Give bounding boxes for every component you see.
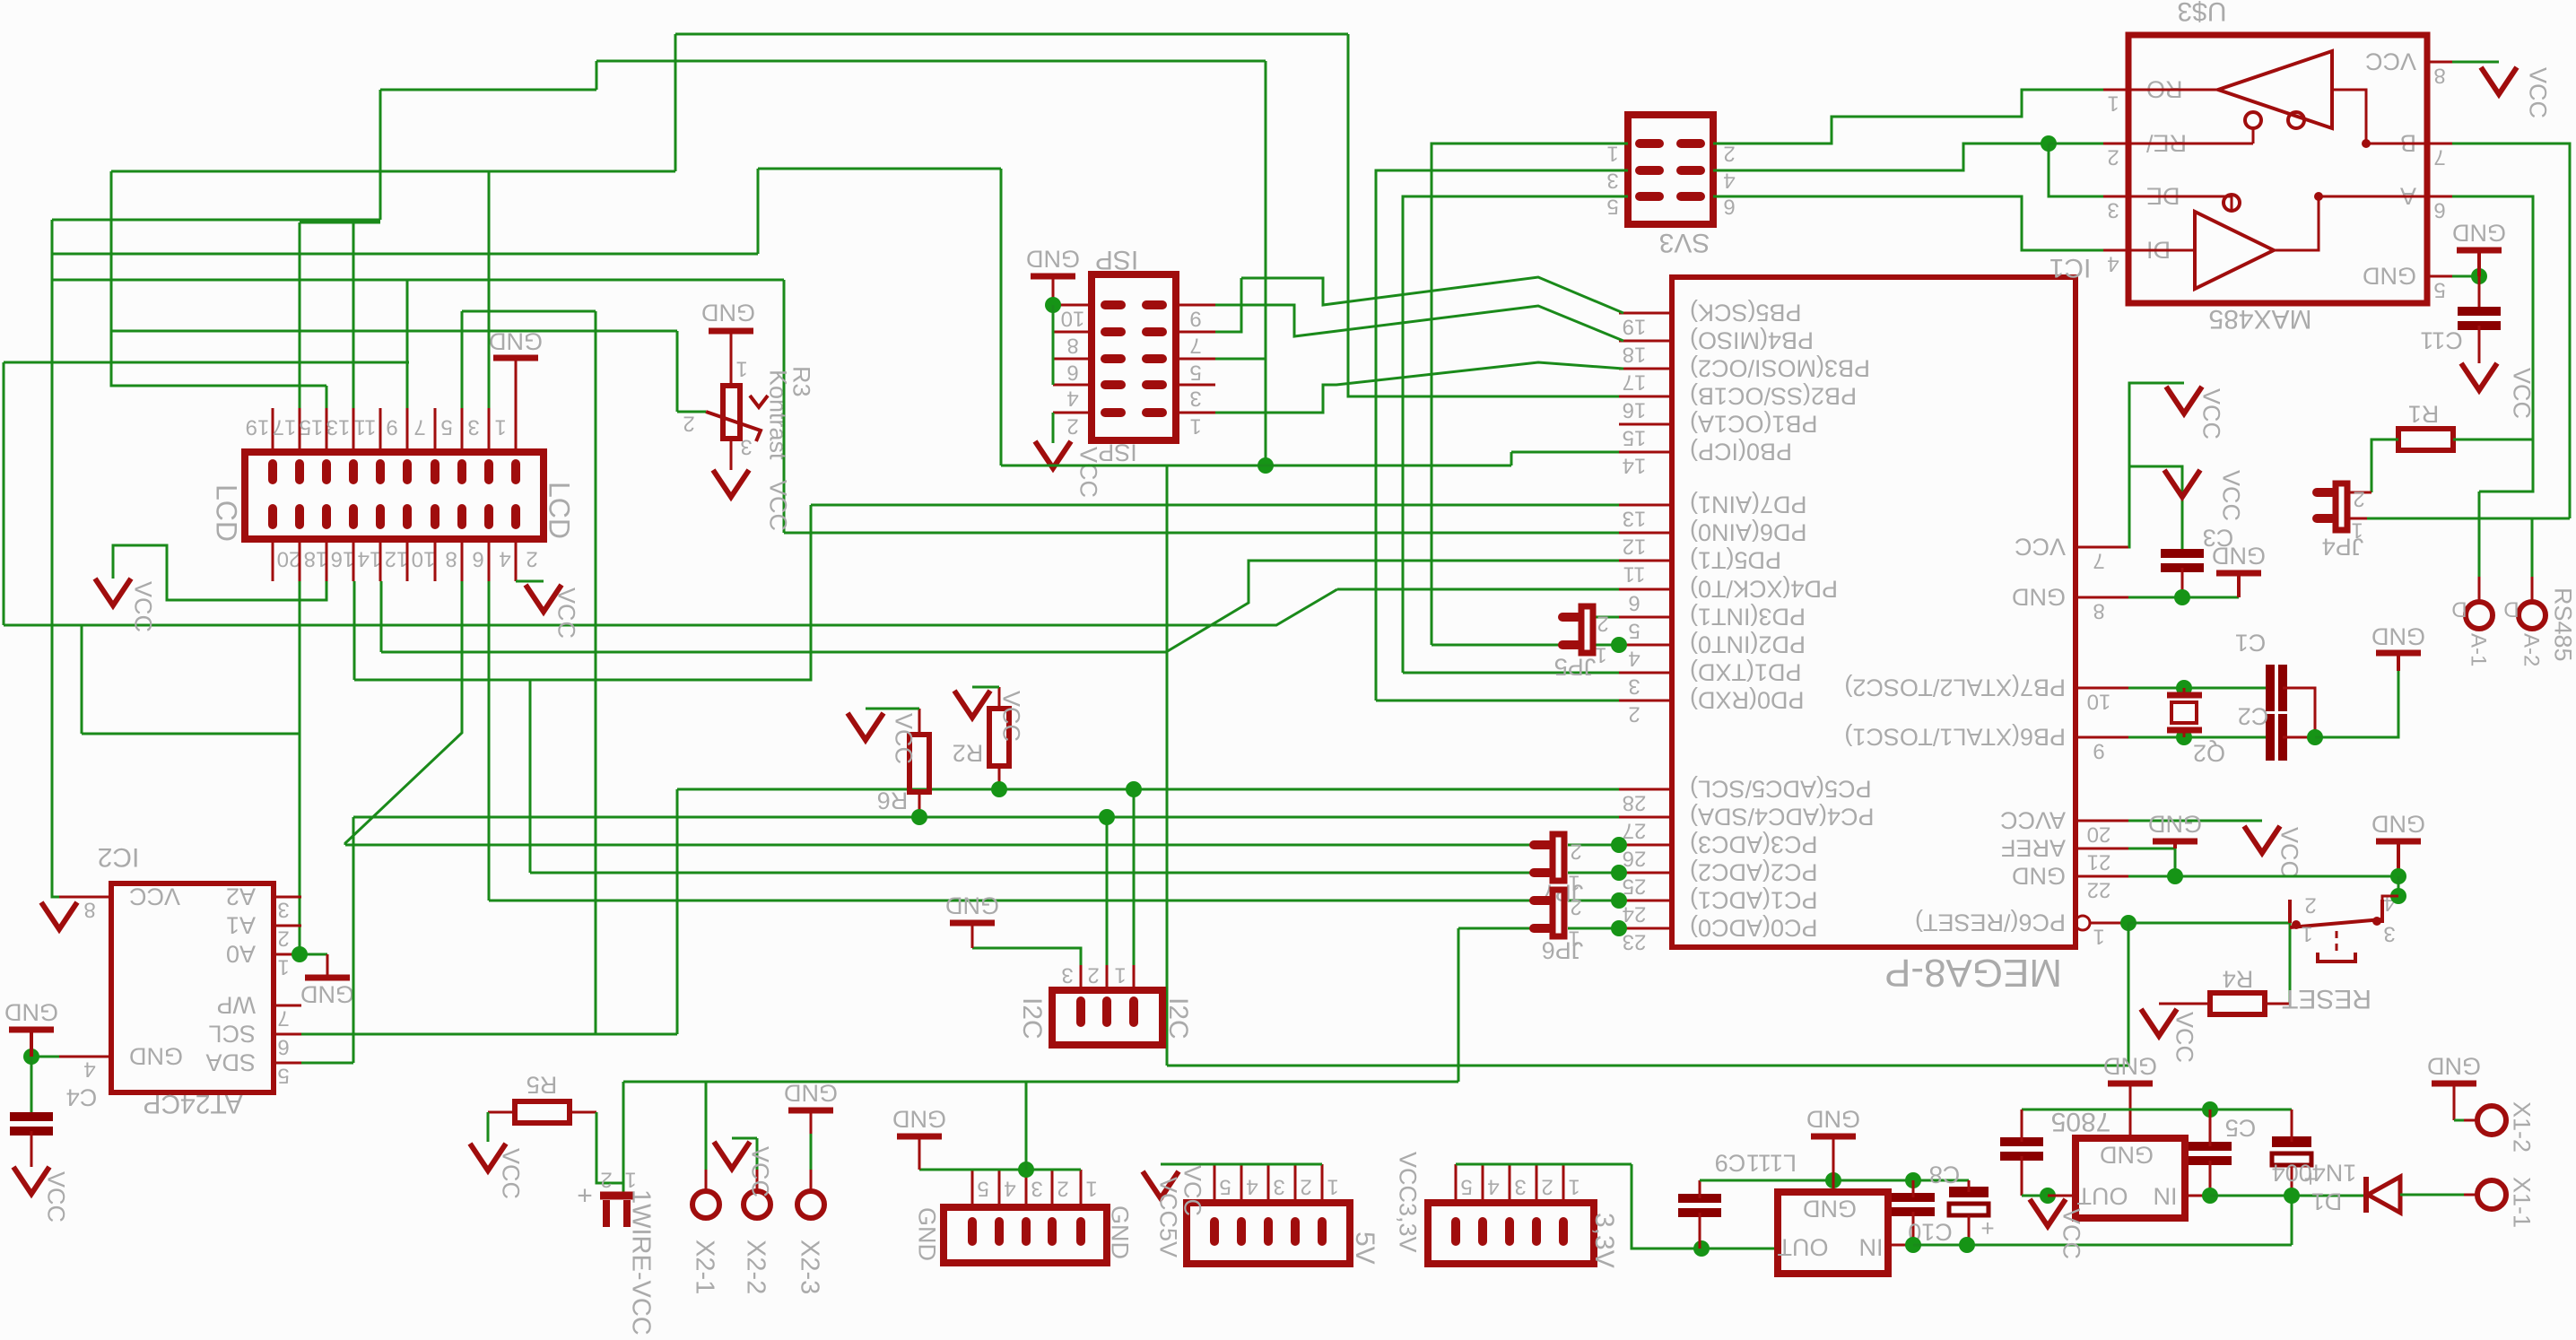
svg-text:D: D xyxy=(2503,596,2519,621)
wire h818 xyxy=(82,733,300,735)
wire C7 top xyxy=(2021,1109,2023,1142)
connector X1-2 xyxy=(2477,1106,2506,1135)
wire SV3 pin4 to RE xyxy=(1713,144,2049,170)
svg-text:GND: GND xyxy=(701,299,755,326)
wire to C3 xyxy=(2129,466,2182,553)
svg-text:VCC: VCC xyxy=(746,1146,773,1197)
svg-text:VCC: VCC xyxy=(2217,470,2244,521)
pin 24 stub xyxy=(1619,900,1672,902)
connector A-2 xyxy=(2519,602,2546,629)
pad LCD pin 11 xyxy=(376,464,385,480)
wire MOSI xyxy=(1215,362,1623,413)
pad LCD pin 4 xyxy=(484,509,493,525)
wire RE stub link xyxy=(2049,143,2103,145)
wire IN net xyxy=(2210,1195,2366,1197)
svg-text:C2: C2 xyxy=(2238,702,2269,729)
svg-text:3: 3 xyxy=(2383,921,2395,945)
wire h404 xyxy=(4,361,409,364)
pin 14 stub xyxy=(1619,451,1672,454)
receiver buffer inside MAX485 xyxy=(2218,51,2332,128)
pin 3 stub xyxy=(2103,196,2128,198)
capacitor C7 xyxy=(2000,1137,2043,1146)
VCC symbol IC2 xyxy=(41,902,77,929)
svg-text:1: 1 xyxy=(1327,1174,1338,1198)
pad VCC3,3V pin 4 xyxy=(1478,1222,1487,1241)
wire wiper lead xyxy=(677,411,706,413)
pin 5 line xyxy=(461,408,464,452)
pin 6 line xyxy=(461,539,464,581)
svg-text:20: 20 xyxy=(2087,822,2111,846)
svg-text:7: 7 xyxy=(413,414,425,439)
wire ground stub xyxy=(2453,1083,2456,1120)
svg-text:26: 26 xyxy=(1623,846,1647,870)
pin 3 line xyxy=(1025,1170,1028,1207)
pin 4 line xyxy=(998,1170,1001,1207)
svg-text:VCC: VCC xyxy=(2015,533,2066,560)
svg-text:GND: GND xyxy=(784,1079,838,1106)
svg-text:5: 5 xyxy=(277,1063,289,1087)
pin 1 stub xyxy=(1176,412,1215,414)
wire PC2 jumper link xyxy=(1568,872,1619,874)
pad VCC5V pin 3 xyxy=(1264,1222,1273,1241)
pin 8 stub xyxy=(59,896,111,899)
svg-text:ISP: ISP xyxy=(1095,245,1138,274)
jumper JP6 xyxy=(1553,890,1564,936)
svg-text:GND: GND xyxy=(2012,862,2066,889)
svg-text:GND: GND xyxy=(2427,1052,2481,1079)
pad I2C pin 1 xyxy=(1129,1001,1138,1022)
wire PC1 jumper link xyxy=(1568,900,1619,902)
svg-text:14: 14 xyxy=(1623,453,1647,477)
junction xyxy=(2176,680,2192,696)
ground near A0 xyxy=(305,975,350,981)
svg-text:PD2(INT0): PD2(INT0) xyxy=(1690,631,1806,657)
wire LCD pin15 up xyxy=(326,386,328,408)
svg-text:SCL: SCL xyxy=(208,1020,256,1047)
pad LCD pin 12 xyxy=(376,509,385,525)
svg-text:X2-3: X2-3 xyxy=(796,1240,824,1294)
pin 1 line xyxy=(1321,1164,1324,1203)
wire C10 bottom xyxy=(1912,1212,1915,1245)
svg-text:5: 5 xyxy=(977,1176,988,1200)
pin 1 line xyxy=(1133,965,1136,990)
connector X2-2 xyxy=(744,1191,770,1218)
wire to LF33 out xyxy=(1632,1164,1778,1249)
svg-text:13: 13 xyxy=(1623,506,1647,530)
wire PC0 jumper link xyxy=(1568,927,1619,930)
junction xyxy=(2176,729,2192,745)
pin 5 stub xyxy=(274,1062,301,1065)
pad SV3 pin 1 xyxy=(1640,139,1659,148)
pin 1 stub xyxy=(274,953,301,956)
svg-text:3: 3 xyxy=(1061,962,1073,987)
svg-text:OUT: OUT xyxy=(2077,1182,2128,1209)
pin 1 line xyxy=(1562,1164,1565,1203)
ground near AREF xyxy=(2153,839,2197,845)
driver buffer inside MAX485 xyxy=(2195,212,2274,289)
svg-text:13: 13 xyxy=(326,414,351,439)
wire terminal stub xyxy=(2531,577,2534,601)
svg-text:20: 20 xyxy=(277,546,301,570)
pin 1 line xyxy=(515,408,518,452)
pad JP4 pin 2 xyxy=(2317,488,2332,497)
pin 25 stub xyxy=(1619,872,1672,874)
wire LCD pin2 vcc xyxy=(516,580,544,583)
svg-text:9: 9 xyxy=(1189,306,1201,330)
svg-text:VCC: VCC xyxy=(42,1171,69,1223)
svg-text:R4: R4 xyxy=(2223,965,2254,992)
wire RE DE tie xyxy=(2049,144,2103,196)
wire LCD pin14 down xyxy=(353,581,356,680)
wire SCK net xyxy=(1241,277,1623,313)
wire ISP reset xyxy=(1215,358,1266,361)
receiver enable bubble 2 xyxy=(2288,112,2304,128)
svg-text:1N4004: 1N4004 xyxy=(2272,1159,2357,1186)
wire to PB2 SS xyxy=(1348,34,1619,396)
wire reset down xyxy=(2128,923,2130,1066)
svg-text:JP6: JP6 xyxy=(1542,936,1584,963)
pin 9 stub xyxy=(1176,304,1215,307)
pad VCC3,3V pin 3 xyxy=(1505,1222,1514,1241)
svg-text:4: 4 xyxy=(499,546,510,570)
capacitor C2 xyxy=(2270,714,2283,761)
pin 4 stub xyxy=(59,1056,111,1058)
wire I2C pin2 xyxy=(1106,817,1109,965)
pin 12 stub xyxy=(1619,532,1672,535)
pin 4 stub xyxy=(1619,644,1672,647)
pin 7 stub xyxy=(274,1005,301,1007)
pad LCD pin 9 xyxy=(403,464,412,480)
svg-text:VCC: VCC xyxy=(2058,1208,2084,1259)
svg-text:2: 2 xyxy=(1066,413,1078,438)
wire R5 to 1wire xyxy=(596,1112,623,1183)
svg-text:+: + xyxy=(1980,1215,1994,1242)
pin 5 line xyxy=(1214,1164,1216,1203)
wire crystal gnd xyxy=(2315,671,2398,737)
pin 6 stub xyxy=(274,1033,301,1036)
svg-text:8: 8 xyxy=(2433,63,2445,87)
pad JP6 pin 2 xyxy=(1534,896,1549,905)
svg-text:IN: IN xyxy=(1859,1233,1884,1260)
ground near C4 xyxy=(9,1027,54,1033)
svg-text:RS485: RS485 xyxy=(2549,587,2576,662)
svg-text:2: 2 xyxy=(2304,892,2316,917)
pad VCC5V pin 4 xyxy=(1237,1222,1246,1241)
junction xyxy=(1825,1172,1841,1188)
svg-text:PD5(T1): PD5(T1) xyxy=(1690,546,1781,573)
svg-text:LCD: LCD xyxy=(543,482,575,539)
pad SV3 pin 3 xyxy=(1640,166,1659,175)
pin 26 stub xyxy=(1619,844,1672,847)
wire PC1 net xyxy=(489,900,1536,902)
diode D1 xyxy=(2363,1177,2369,1213)
connector I2C body xyxy=(1052,990,1162,1045)
switch S1 contacts xyxy=(2290,900,2382,923)
svg-text:PB7(XTAL2/TOSC2): PB7(XTAL2/TOSC2) xyxy=(1844,674,2066,700)
wire C8 bottom xyxy=(1968,1215,1971,1245)
junction B internal xyxy=(2362,139,2371,148)
pad VCC5V pin 1 xyxy=(1318,1222,1327,1241)
wire SCL riser xyxy=(676,789,679,1034)
wire v845 xyxy=(757,169,760,254)
junction xyxy=(911,809,927,825)
wire PD1 net xyxy=(1403,672,1619,674)
wire SV3 pin2 to RO xyxy=(1713,90,2103,144)
VCC symbol xyxy=(2481,67,2517,94)
pad LCD pin 14 xyxy=(349,509,358,525)
ground near Q2 xyxy=(2376,650,2421,657)
wire X2-3 gnd xyxy=(810,1134,813,1170)
resistor R4 xyxy=(2210,993,2265,1014)
pad ISP left 6 xyxy=(1105,354,1121,363)
pin 3 line xyxy=(1267,1164,1270,1203)
wire PD6 net xyxy=(784,532,1619,535)
svg-text:D1: D1 xyxy=(2311,1188,2343,1214)
wire ground stub xyxy=(2397,841,2400,876)
wire C10 top xyxy=(1912,1180,1915,1197)
wire C11 to VCC xyxy=(2478,326,2481,363)
VCC symbol R5 xyxy=(470,1144,506,1170)
IC IC2 AT24CP body xyxy=(111,883,274,1092)
wire v58 to IC2 VCC xyxy=(52,220,59,897)
wire C9 top xyxy=(1699,1180,1701,1198)
svg-text:2: 2 xyxy=(2107,144,2119,169)
svg-text:1: 1 xyxy=(1189,413,1201,438)
junction xyxy=(1959,1237,1975,1253)
wire PD5 net xyxy=(381,561,1619,652)
pin 15 stub xyxy=(1619,423,1672,426)
svg-text:VCC: VCC xyxy=(497,1148,524,1199)
pad LCD pin 16 xyxy=(322,509,331,525)
wire bus h191a xyxy=(111,170,675,173)
pin 5 line xyxy=(1455,1164,1458,1203)
pad LCD pin 13 xyxy=(349,464,358,480)
svg-text:C11: C11 xyxy=(2420,326,2463,353)
wire PC3 net xyxy=(345,844,1536,847)
wire R5 right lead xyxy=(570,1111,596,1114)
svg-text:21: 21 xyxy=(2087,849,2111,874)
wire ground stub xyxy=(515,358,518,408)
svg-text:10: 10 xyxy=(2087,689,2111,713)
wire ISP vcc pin2 xyxy=(1052,413,1055,443)
svg-text:AREF: AREF xyxy=(2001,834,2066,861)
pin 18 line xyxy=(299,539,301,581)
pin 11 stub xyxy=(1619,560,1672,562)
svg-text:4: 4 xyxy=(1487,1174,1499,1198)
svg-text:WP: WP xyxy=(217,991,257,1018)
junction xyxy=(1018,1162,1034,1178)
wire 5V tie xyxy=(1161,1163,1322,1166)
svg-text:17: 17 xyxy=(273,414,297,439)
pin 3 line xyxy=(488,408,491,452)
wire DE to bubble xyxy=(2128,196,2232,198)
svg-text:4: 4 xyxy=(1628,646,1640,670)
svg-text:X2-1: X2-1 xyxy=(691,1240,719,1294)
svg-text:U$3: U$3 xyxy=(2177,0,2226,26)
svg-text:I2C: I2C xyxy=(1163,997,1193,1040)
svg-text:D: D xyxy=(2451,596,2467,621)
pin 2 stub xyxy=(1619,700,1672,702)
VCC symbol 7805 out xyxy=(2030,1199,2066,1226)
svg-text:GND: GND xyxy=(2371,810,2425,837)
pin 6 stub xyxy=(1053,358,1092,361)
VCC symbol under ISP xyxy=(1035,441,1071,468)
svg-text:15: 15 xyxy=(300,414,324,439)
wire PC3 jumper link xyxy=(1568,844,1619,847)
svg-text:9: 9 xyxy=(386,414,397,439)
wire VCC pin8 xyxy=(2452,61,2499,64)
pin 9 line xyxy=(406,408,409,452)
svg-text:PD4(XCK/T0): PD4(XCK/T0) xyxy=(1690,575,1838,602)
pad LCD pin 5 xyxy=(457,464,466,480)
wire R6 top lead xyxy=(918,709,921,735)
VCC symbol X2-2 xyxy=(714,1142,750,1169)
connector X2-3 xyxy=(797,1191,824,1218)
svg-text:GND: GND xyxy=(892,1105,946,1132)
svg-text:10: 10 xyxy=(1061,306,1085,330)
VCC symbol AVCC xyxy=(2244,826,2280,853)
svg-text:GND: GND xyxy=(1803,1195,1857,1222)
wire ground stub xyxy=(918,1136,921,1170)
svg-text:4: 4 xyxy=(2107,251,2119,275)
trimmer R3 wiper xyxy=(706,396,768,441)
wire B net xyxy=(2452,144,2570,518)
wire ground stub xyxy=(810,1110,813,1134)
wire R6 vcc xyxy=(866,708,919,710)
pad LCD pin 2 xyxy=(511,509,520,525)
svg-text:PD0(RXD): PD0(RXD) xyxy=(1690,686,1805,713)
IC U$3 MAX485 body xyxy=(2128,35,2427,303)
junction xyxy=(2041,135,2057,152)
svg-text:6: 6 xyxy=(2433,197,2445,222)
pin 1 line xyxy=(1080,1170,1083,1207)
pad JP4 pin 1 xyxy=(2317,514,2332,523)
junction xyxy=(1045,297,1061,313)
IC L111 regulator body xyxy=(1778,1192,1888,1274)
svg-text:GND: GND xyxy=(2012,583,2066,610)
wire receiver input to B xyxy=(2332,90,2427,144)
pin 23 stub xyxy=(1619,927,1672,930)
svg-text:GND: GND xyxy=(1026,245,1080,272)
pad ISP left 4 xyxy=(1105,380,1121,389)
svg-text:17: 17 xyxy=(1623,370,1647,394)
ground above ISP xyxy=(1031,274,1075,280)
pad LCD pin 7 xyxy=(431,464,439,480)
svg-text:PB5(SCK): PB5(SCK) xyxy=(1690,299,1802,326)
pin 16 line xyxy=(326,539,328,581)
pin 1 stub xyxy=(2103,89,2128,91)
wire X1-1 stub xyxy=(2464,1194,2477,1196)
svg-text:C5: C5 xyxy=(2225,1114,2257,1141)
VCC symbol LCD pin2 xyxy=(526,585,561,612)
svg-text:6: 6 xyxy=(472,546,483,570)
pad ISP right 5 xyxy=(1146,354,1162,363)
svg-text:GND: GND xyxy=(4,998,58,1025)
pad LCD pin 1 xyxy=(511,464,520,480)
junction xyxy=(2120,915,2137,931)
wire LCD pin13 up xyxy=(352,220,355,408)
wire bubble stub xyxy=(2252,128,2255,144)
svg-text:2: 2 xyxy=(2353,486,2364,510)
wire RE to bubble xyxy=(2128,143,2253,145)
svg-text:PC0(ADC0): PC0(ADC0) xyxy=(1690,914,1818,941)
wire VCC pin7 xyxy=(2128,383,2184,547)
svg-text:2: 2 xyxy=(1541,1174,1553,1198)
pin 8 stub xyxy=(1053,331,1092,334)
pad JP5 pin 2 xyxy=(1562,613,1578,622)
wire to terminal A-2 xyxy=(2531,518,2534,577)
wire IN lead xyxy=(1888,1244,1913,1247)
svg-text:18: 18 xyxy=(1623,342,1647,366)
ground above R3 xyxy=(709,328,753,335)
wire LCD pin3 up xyxy=(488,171,491,408)
wire X1-2 xyxy=(2454,1119,2464,1122)
svg-text:1: 1 xyxy=(735,356,747,380)
capacitor C5 xyxy=(2189,1142,2232,1151)
wire to C11 xyxy=(2478,276,2481,311)
svg-text:3: 3 xyxy=(1273,1174,1284,1198)
svg-text:PB0(ICP): PB0(ICP) xyxy=(1690,438,1792,465)
pin 11 line xyxy=(379,408,382,452)
pad JP5 pin 1 xyxy=(1562,640,1578,649)
svg-text:A1: A1 xyxy=(226,911,256,938)
wire SCK from ISP xyxy=(1215,278,1241,332)
wire 7805 gnd pin xyxy=(2129,1083,2132,1138)
svg-text:12: 12 xyxy=(385,546,409,570)
VCC symbol near C3 xyxy=(2164,470,2200,497)
ground near I2C xyxy=(950,920,995,927)
wire v664 xyxy=(595,311,597,1034)
svg-text:PC5(ADC5/SCL): PC5(ADC5/SCL) xyxy=(1690,775,1872,802)
pad I2C pin 3 xyxy=(1076,1001,1085,1022)
wire MISO xyxy=(1215,305,1623,341)
svg-text:Q2: Q2 xyxy=(2193,739,2225,766)
connector VCC3.3V body xyxy=(1428,1203,1594,1264)
junction xyxy=(2284,1188,2300,1204)
svg-text:15: 15 xyxy=(1623,425,1647,449)
pad GND header pin 3 xyxy=(1022,1222,1031,1241)
wire h697 PD4 net xyxy=(4,589,1337,625)
svg-text:1: 1 xyxy=(1568,1174,1580,1198)
wire LCD pin18 down xyxy=(299,581,301,954)
ground above LF33 xyxy=(1811,1134,1856,1140)
svg-text:VCC: VCC xyxy=(890,713,917,764)
svg-text:5: 5 xyxy=(1460,1174,1472,1198)
capacitor C9 xyxy=(1678,1194,1721,1203)
svg-text:A0: A0 xyxy=(226,940,256,967)
junction xyxy=(1611,920,1627,936)
switch S1 arm xyxy=(2290,919,2382,927)
wire 3.3V rail xyxy=(1456,1163,1632,1166)
pin 19 line xyxy=(272,408,274,452)
pin 3 stub xyxy=(1619,672,1672,674)
svg-text:X2-2: X2-2 xyxy=(742,1240,770,1294)
connector LCD body xyxy=(245,452,544,539)
wire PC0 to bus xyxy=(1458,928,1460,1082)
pin 5 stub xyxy=(2427,275,2452,278)
svg-text:GND: GND xyxy=(1806,1105,1860,1132)
connector GND header body xyxy=(944,1207,1107,1263)
pin 3 line xyxy=(1080,965,1083,990)
pin 7 stub xyxy=(2427,143,2452,145)
wire IN lead xyxy=(2185,1195,2210,1197)
resistor R6 xyxy=(909,735,929,792)
svg-text:1: 1 xyxy=(277,954,289,979)
svg-text:10: 10 xyxy=(412,546,436,570)
wire v1116 xyxy=(1000,169,1003,466)
wire ground stub xyxy=(2477,250,2481,276)
wire PD2 net 2 xyxy=(1595,644,1619,647)
